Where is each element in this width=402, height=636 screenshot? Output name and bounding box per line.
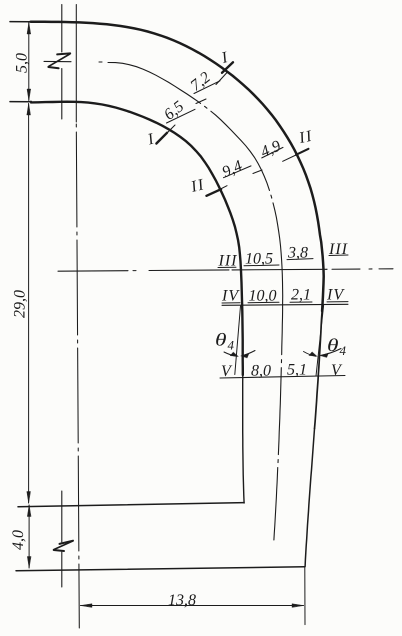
section plane trace right (theta4) xyxy=(316,306,324,377)
label 6,5 underline xyxy=(167,109,196,123)
svg-text:8,0: 8,0 xyxy=(251,363,271,380)
theta4 left arrows xyxy=(224,352,237,356)
horizontal centerline right xyxy=(327,268,393,271)
centerline top-leg dash xyxy=(44,60,102,63)
label 7,2 underline xyxy=(194,81,220,94)
label IV left underline xyxy=(222,302,240,304)
inner profile extension xyxy=(10,101,31,103)
svg-text:III: III xyxy=(328,241,348,258)
bottom edge line xyxy=(16,567,305,571)
svg-text:2,1: 2,1 xyxy=(291,287,311,304)
svg-text:II: II xyxy=(188,176,206,196)
svg-text:4: 4 xyxy=(228,338,235,353)
svg-text:V: V xyxy=(331,362,343,379)
svg-text:5,1: 5,1 xyxy=(287,362,307,379)
label 10,5 underline xyxy=(244,264,279,267)
svg-text:6,5: 6,5 xyxy=(161,98,187,124)
dimension line 29,0 xyxy=(28,104,30,504)
section III line xyxy=(232,268,327,271)
break line top with zigzag xyxy=(61,5,63,53)
section IV line xyxy=(222,304,348,305)
vertical solid line B top xyxy=(75,5,77,123)
label IV right underline xyxy=(327,301,348,303)
svg-text:29,0: 29,0 xyxy=(12,290,29,318)
label 9,4 underline xyxy=(224,166,252,178)
outer edge middle (medium) xyxy=(315,311,323,429)
svg-text:7,2: 7,2 xyxy=(187,69,213,95)
inner edge lower (thin) xyxy=(243,375,244,503)
svg-text:III: III xyxy=(218,253,238,270)
section plane trace left (theta4) xyxy=(235,306,241,375)
svg-text:13,8: 13,8 xyxy=(168,592,196,609)
svg-text:3,8: 3,8 xyxy=(287,245,308,262)
section II line xyxy=(210,155,297,195)
label 3,8 underline xyxy=(287,259,313,260)
svg-text:10,5: 10,5 xyxy=(245,251,273,268)
vertical centerline xyxy=(76,124,79,628)
break line bottom with zigzag xyxy=(61,491,63,542)
svg-text:I: I xyxy=(219,49,230,67)
svg-text:10,0: 10,0 xyxy=(249,288,277,305)
svg-text:IV: IV xyxy=(326,287,345,304)
dimension line 13,8 xyxy=(81,605,304,607)
label III right underline xyxy=(329,254,348,257)
svg-text:4: 4 xyxy=(340,343,347,358)
horizontal centerline xyxy=(58,270,232,271)
section I line xyxy=(164,73,227,137)
inner bottom edge line xyxy=(18,503,244,507)
svg-text:4,0: 4,0 xyxy=(10,530,27,550)
section V line xyxy=(220,376,345,379)
inner profile outline xyxy=(31,102,243,375)
label 4,9 underline xyxy=(262,147,283,158)
svg-text:θ: θ xyxy=(215,330,227,350)
outer profile extension xyxy=(10,21,31,23)
extension line right bottom xyxy=(304,567,306,625)
svg-text:II: II xyxy=(297,128,315,148)
centerline arc xyxy=(108,63,283,541)
svg-text:IV: IV xyxy=(221,288,240,305)
label 2,1 underline xyxy=(290,301,312,303)
label III left underline xyxy=(218,266,236,268)
dimension line 4,0 xyxy=(28,505,30,568)
outer profile outline xyxy=(31,22,324,311)
svg-text:θ: θ xyxy=(327,335,339,355)
label 10,0 underline xyxy=(248,301,279,303)
svg-text:5,0: 5,0 xyxy=(14,53,31,73)
svg-text:I: I xyxy=(145,130,156,148)
outer edge lower (thin) xyxy=(305,429,314,567)
theta4 right arrows xyxy=(304,352,316,357)
dimension line 5,0 xyxy=(28,23,30,101)
